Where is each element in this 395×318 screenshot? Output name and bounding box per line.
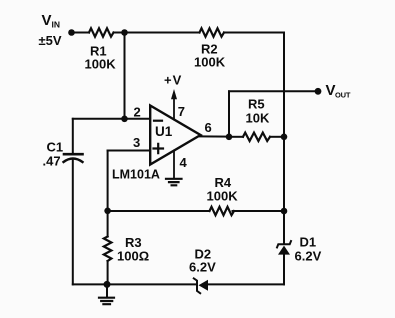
svg-text:+V: +V <box>164 73 182 88</box>
svg-text:6.2V: 6.2V <box>189 260 216 275</box>
wire right vertical: R5 node down to R4 node <box>283 137 285 211</box>
junction dot node B (R5 right) <box>281 134 288 141</box>
junction dot node A (pin6/R5/VOUT) <box>226 134 233 141</box>
wire: R3 bottom lead to ground node <box>107 261 109 284</box>
wire: ground stem below bottom node <box>106 284 108 297</box>
wire bottom: right corner to D2 anode <box>208 283 284 285</box>
+V arrow head <box>171 89 177 99</box>
diode D1 triangle <box>278 246 290 255</box>
wire: D1 anode to bottom right corner <box>283 254 285 284</box>
wire top: VIN to R1 <box>72 32 90 34</box>
svg-text:100K: 100K <box>85 57 117 72</box>
wire: pin 3 input to op-amp <box>108 150 150 152</box>
svg-text:±5V: ±5V <box>39 33 62 48</box>
junction dot R1/R2/pin2 branch <box>121 29 128 36</box>
wire bottom: D2 cathode to left corner <box>73 283 197 285</box>
diode D1 zener cathode bar <box>277 241 291 247</box>
diode D2 zener cathode bar <box>194 278 200 293</box>
svg-text:4: 4 <box>180 155 188 170</box>
wire: pin 7 to +V arrow <box>173 98 175 120</box>
svg-text:3: 3 <box>133 135 140 150</box>
diode D2 triangle <box>199 280 209 291</box>
svg-text:R5: R5 <box>248 97 265 112</box>
svg-text:100K: 100K <box>194 55 226 70</box>
wire right vertical: R4 node down to D1 <box>283 211 285 244</box>
capacitor C1 bottom curved plate <box>64 159 83 163</box>
op-amp non-inverting input plus sign <box>154 144 164 153</box>
terminal dot VIN <box>68 29 75 36</box>
svg-text:100Ω: 100Ω <box>117 249 149 264</box>
op-amp U1 triangle <box>150 106 200 165</box>
resistor R3 <box>104 237 112 262</box>
wire: node A up to VOUT line <box>228 91 230 137</box>
capacitor C1 top plate <box>64 153 83 156</box>
svg-text:6.2V: 6.2V <box>295 249 322 264</box>
wire left vertical: pin2 corner down to C1 top plate <box>72 119 74 153</box>
svg-text:6: 6 <box>205 120 212 135</box>
svg-text:VOUT: VOUT <box>326 82 351 99</box>
wire top: R1 to R2 <box>114 32 200 34</box>
wire: pin 3 vertical down to R3 node <box>107 151 109 212</box>
wire: VOUT horizontal <box>229 90 318 92</box>
svg-text:U1: U1 <box>155 124 173 139</box>
wire mid: R3 node to R4 <box>108 210 210 212</box>
wire: op-amp output pin 6 to node A <box>200 135 229 137</box>
junction dot R4 right node <box>281 208 288 215</box>
ground symbol at pin 4 <box>166 179 182 186</box>
svg-text:.47: .47 <box>43 154 61 169</box>
resistor R1 <box>89 28 114 36</box>
wire top: R2 to right corner <box>224 32 284 34</box>
resistor R5 <box>243 133 270 141</box>
wire: R5 to node B on right vertical <box>270 136 284 138</box>
junction dot pin 2 node <box>121 116 128 123</box>
wire: pin 2 input from C1 corner to op-amp <box>73 118 150 120</box>
wire right vertical: top corner down to R5 node <box>283 33 285 137</box>
resistor R4 <box>210 207 235 215</box>
svg-text:LM101A: LM101A <box>112 168 160 182</box>
svg-text:VIN: VIN <box>42 12 61 30</box>
svg-text:10K: 10K <box>246 111 270 126</box>
svg-text:C1: C1 <box>47 140 64 155</box>
wire left vertical: C1 bottom lead to bottom wire <box>72 160 74 284</box>
wire: node A to R5 <box>229 136 243 138</box>
terminal dot VOUT <box>315 88 322 95</box>
wire: junction R1 down to pin2 wire <box>124 33 126 119</box>
wire mid: R4 to right vertical <box>233 210 285 212</box>
wire: R3 top lead <box>107 211 109 237</box>
wire: pin 4 down from op-amp <box>173 151 175 178</box>
svg-text:2: 2 <box>134 105 141 120</box>
svg-text:100K: 100K <box>207 189 239 204</box>
ground symbol bottom <box>99 298 114 305</box>
op-amp inverting input minus sign <box>154 120 162 122</box>
svg-text:D1: D1 <box>300 235 317 250</box>
svg-text:7: 7 <box>178 104 185 119</box>
junction dot R3 top node <box>104 208 111 215</box>
resistor R2 <box>200 28 225 36</box>
junction dot ground node <box>104 281 111 288</box>
